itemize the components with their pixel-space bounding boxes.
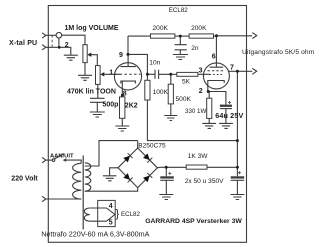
svg-text:200K: 200K (191, 25, 207, 32)
svg-text:7: 7 (230, 65, 234, 72)
svg-text:1: 1 (109, 69, 113, 76)
svg-text:6: 6 (212, 54, 216, 61)
svg-text:5: 5 (109, 219, 113, 226)
svg-text:470K lin TOON: 470K lin TOON (67, 88, 116, 95)
svg-text:2x 50 u 350V: 2x 50 u 350V (185, 178, 224, 185)
svg-text:5K: 5K (182, 79, 191, 86)
svg-text:500K: 500K (176, 96, 192, 103)
svg-text:ECL82: ECL82 (169, 7, 188, 14)
svg-text:}: } (116, 208, 120, 220)
svg-text:Nettrafo 220V-60 mA 6,3V-800mA: Nettrafo 220V-60 mA 6,3V-800mA (41, 229, 149, 238)
svg-text:330 1W: 330 1W (185, 108, 206, 115)
svg-text:8: 8 (123, 91, 127, 98)
svg-text:9: 9 (119, 52, 123, 59)
svg-text:1K 3W: 1K 3W (188, 153, 209, 160)
svg-text:Uitgangstrafo 5K/5 ohm: Uitgangstrafo 5K/5 ohm (242, 49, 315, 56)
svg-text:200K: 200K (153, 25, 169, 32)
svg-text:100K: 100K (153, 89, 169, 96)
svg-text:3: 3 (199, 67, 203, 74)
svg-text:220 Volt: 220 Volt (11, 175, 38, 182)
svg-text:2: 2 (65, 42, 69, 49)
svg-text:X-tal PU: X-tal PU (9, 40, 37, 47)
svg-text:B250C75: B250C75 (138, 142, 166, 149)
svg-text:ECL82: ECL82 (121, 211, 140, 218)
svg-text:64u 25V: 64u 25V (215, 111, 243, 120)
svg-text:10n: 10n (149, 59, 160, 66)
svg-text:1M log VOLUME: 1M log VOLUME (65, 25, 119, 32)
svg-text:2K2: 2K2 (125, 103, 138, 110)
svg-text:4: 4 (109, 203, 113, 210)
svg-text:500p: 500p (103, 102, 119, 109)
svg-text:2: 2 (199, 88, 203, 95)
svg-text:GARRARD 4SP Versterker 3W: GARRARD 4SP Versterker 3W (145, 218, 242, 225)
svg-text:AAN/UIT: AAN/UIT (50, 153, 74, 159)
svg-text:2n: 2n (191, 45, 199, 52)
